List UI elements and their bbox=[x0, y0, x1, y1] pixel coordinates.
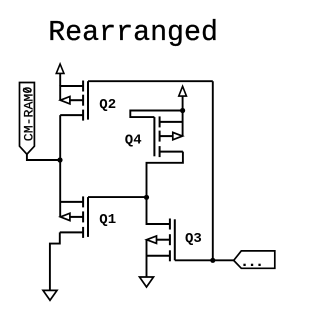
net label CM-RAM0 flag bbox=[20, 83, 37, 155]
VDD arrow above Q2 bbox=[56, 64, 64, 86]
node D junction dot bbox=[210, 258, 215, 263]
wire Q2 gate to right rail bbox=[88, 80, 213, 82]
wire Q4 gate jog to node B bbox=[130, 111, 182, 118]
VDD arrow above Q4 bbox=[179, 86, 187, 136]
transistor Q4 bbox=[154, 116, 183, 157]
svg-text:Q4: Q4 bbox=[125, 133, 142, 149]
wire Q4 source to node C bbox=[147, 152, 183, 198]
output tag ... bbox=[234, 251, 275, 268]
ground below Q1 bbox=[43, 290, 57, 300]
wire node C down to Q3 drain bbox=[147, 197, 170, 224]
wire Q1 gate lead to node C bbox=[88, 196, 147, 198]
svg-text:Rearranged: Rearranged bbox=[48, 17, 218, 49]
svg-text:Q2: Q2 bbox=[99, 97, 116, 113]
transistor Q1 bbox=[60, 196, 88, 238]
ground below Q3 bbox=[140, 277, 154, 287]
node C junction dot bbox=[144, 195, 149, 200]
node A junction dot bbox=[57, 157, 62, 162]
wire VDD to Q2 drain and bulk bbox=[59, 86, 61, 101]
wire Q2 source down to node A and Q1 bbox=[59, 115, 61, 217]
node B junction dot bbox=[180, 108, 185, 113]
svg-text:CM-RAM: CM-RAM bbox=[22, 94, 37, 142]
wire Q3 bulk and source to ground bbox=[146, 240, 148, 277]
svg-text:Q1: Q1 bbox=[99, 212, 116, 228]
svg-text:Q3: Q3 bbox=[185, 231, 202, 247]
wire Q3 gate to node D and output bbox=[175, 259, 234, 261]
wire flag to node A bbox=[27, 154, 60, 160]
wire right rail bbox=[212, 81, 214, 260]
transistor Q2 bbox=[60, 81, 88, 121]
wire Q1 source to ground bbox=[50, 232, 60, 290]
transistor Q3 bbox=[147, 219, 175, 262]
